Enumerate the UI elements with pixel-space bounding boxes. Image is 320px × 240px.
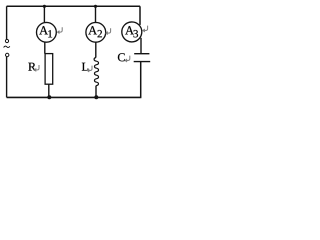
return mark after L [87,66,92,72]
background [0,0,155,105]
inductor L coil [94,58,98,86]
label subscript 2 of A2 [98,30,102,37]
return mark after C [125,56,130,62]
terminal lower (AC source) [6,53,9,56]
label R (resistor) [28,63,36,71]
wire C to bottom rail [140,62,142,98]
wire branch1 top [43,6,45,22]
node dot branch2 bottom [94,95,98,99]
label L (inductor) [82,63,88,71]
wire branch2 top [95,6,97,22]
node dot branch1 bottom [47,95,51,99]
label C (capacitor) [118,53,125,61]
label subscript 3 of A3 [133,30,138,37]
ammeter A2 [86,22,106,42]
wire left edge lower [6,57,8,98]
terminal upper (AC source) [5,39,8,42]
wire top rail [7,5,141,7]
return mark after A1 [58,27,63,33]
capacitor C bottom plate [134,61,151,63]
wire bottom rail [7,96,142,98]
wire right edge top [139,6,141,25]
return mark after R [34,65,39,71]
capacitor C top plate [134,53,149,55]
return mark after A2 [106,28,111,34]
wire left edge upper [6,6,8,39]
AC source tilde [4,46,10,47]
label A of A2 [88,26,97,34]
ammeter A3 [122,22,142,42]
ammeter A1 [37,22,57,42]
wire A3 to C [140,38,142,54]
label A of A3 [125,26,134,34]
return mark after A3 [143,26,148,32]
node dot branch1 top [43,5,46,8]
resistor R body [45,54,53,85]
node dot branch2 top [94,5,97,8]
wire R to bottom rail [48,84,50,97]
wire L to bottom rail [95,86,97,98]
wire A2 to L [95,42,97,58]
label subscript 1 of A1 [48,30,52,37]
wire A1 to R [44,42,46,54]
label A of A1 [39,26,48,34]
